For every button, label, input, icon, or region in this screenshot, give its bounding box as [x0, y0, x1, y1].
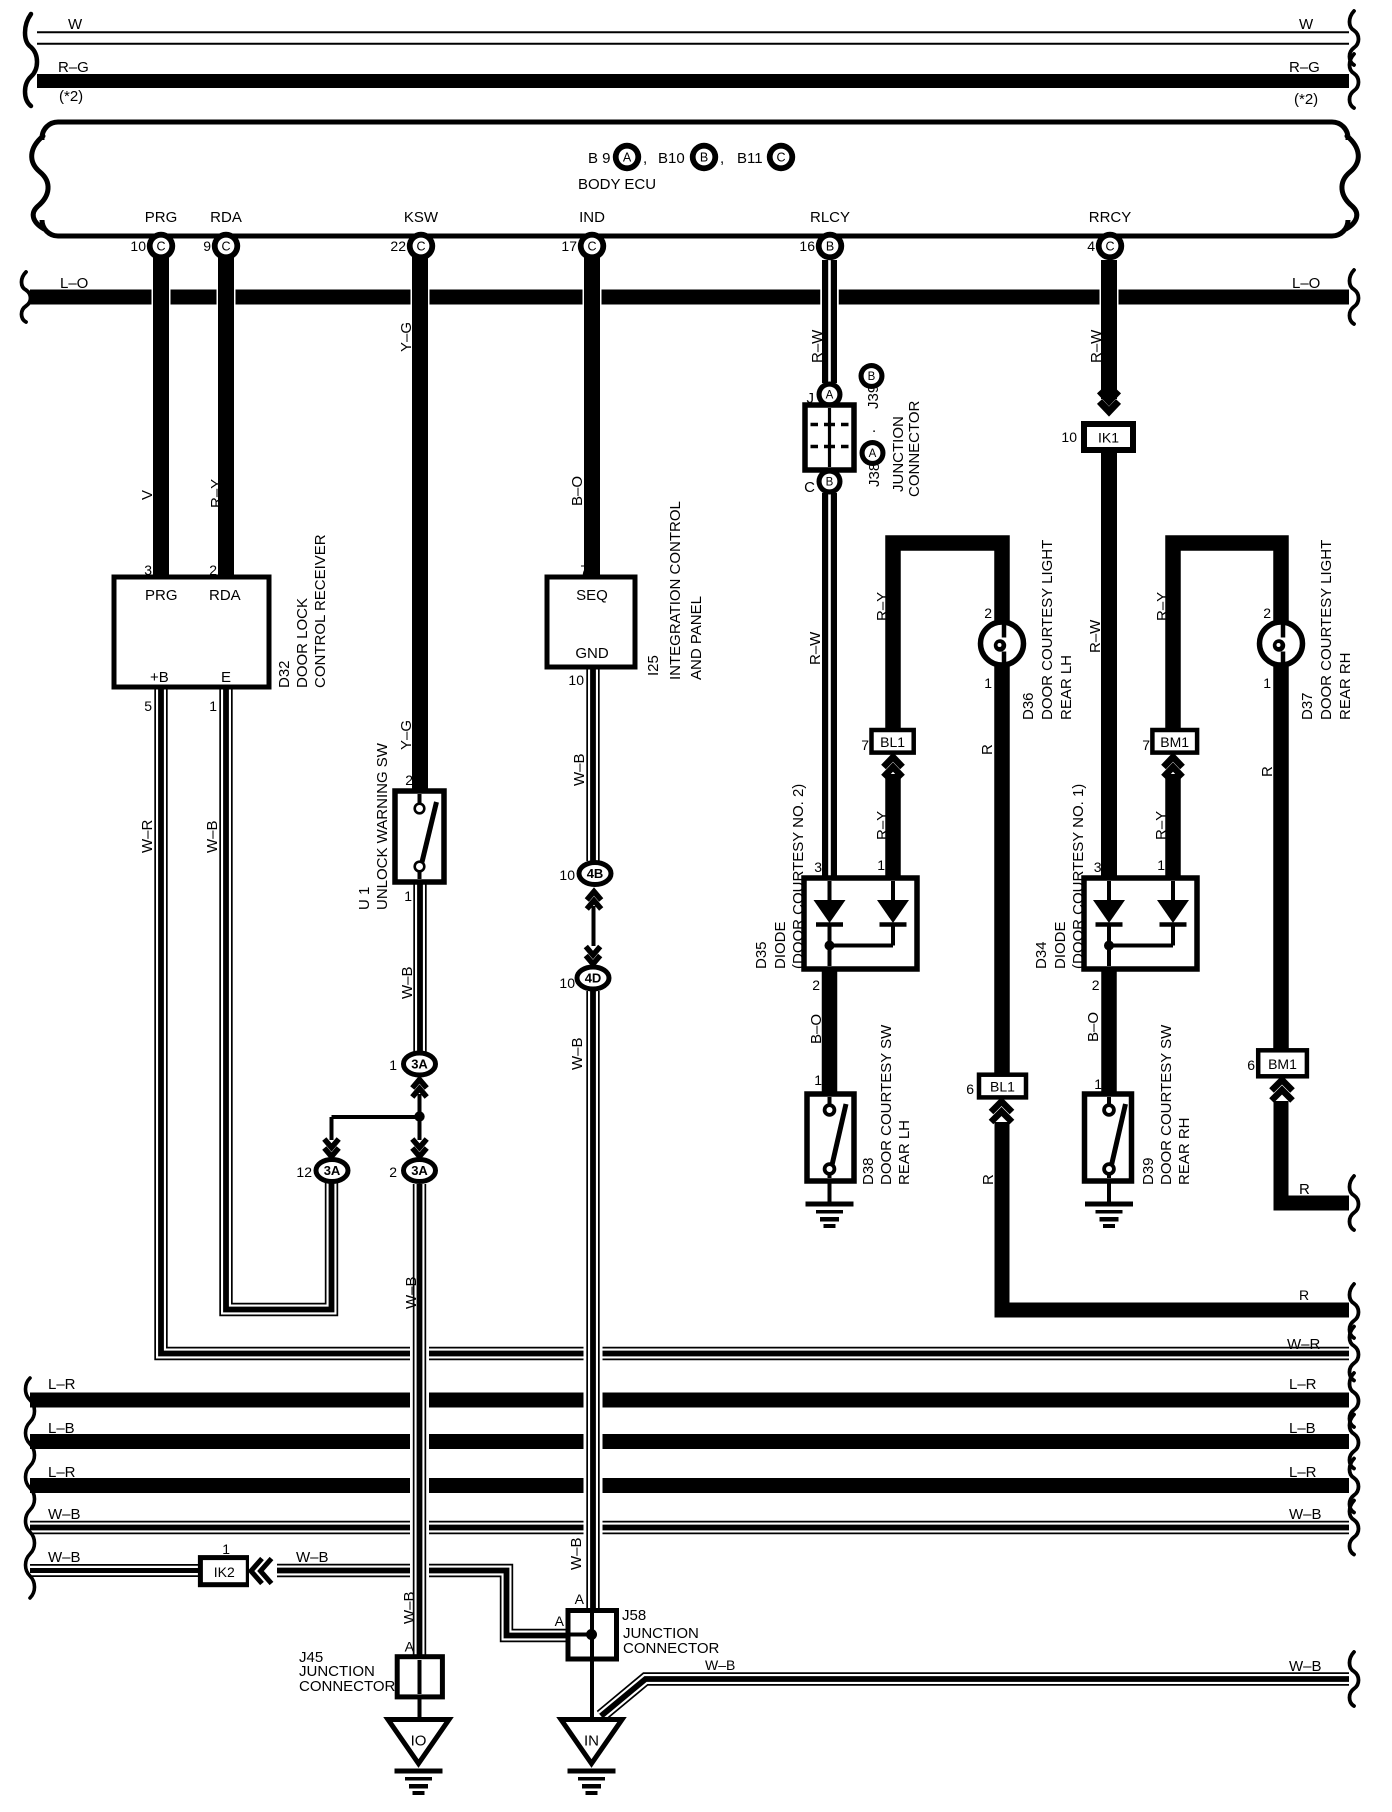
svg-text:2: 2	[209, 562, 217, 578]
svg-text:,: ,	[720, 150, 724, 167]
svg-text:(*2): (*2)	[59, 88, 83, 105]
svg-text:D36: D36	[1020, 692, 1037, 720]
svg-text:W–B: W–B	[204, 820, 221, 853]
svg-text:7: 7	[1142, 737, 1150, 753]
svg-text:(DOOR COURTESY NO. 1): (DOOR COURTESY NO. 1)	[1070, 784, 1087, 969]
svg-text:B: B	[826, 240, 834, 254]
svg-text:C: C	[776, 151, 785, 165]
svg-text:B: B	[826, 477, 834, 489]
svg-text:PRG: PRG	[145, 587, 178, 604]
svg-text:L–R: L–R	[48, 1464, 76, 1481]
svg-text:W–B: W–B	[1289, 1658, 1322, 1675]
svg-text:IN: IN	[584, 1733, 599, 1750]
svg-text:10: 10	[568, 672, 584, 688]
svg-text:PRG: PRG	[145, 209, 178, 226]
svg-text:7: 7	[580, 562, 588, 578]
svg-text:INTEGRATION CONTROL: INTEGRATION CONTROL	[667, 501, 684, 680]
svg-text:1: 1	[389, 1057, 397, 1073]
svg-text:4B: 4B	[587, 866, 604, 881]
svg-text:1: 1	[1094, 1076, 1102, 1092]
svg-text:IND: IND	[579, 209, 605, 226]
svg-text:R–W: R–W	[809, 329, 826, 363]
svg-text:BM1: BM1	[1268, 1056, 1297, 1072]
svg-text:1: 1	[1157, 857, 1165, 873]
svg-text:R–G: R–G	[1289, 59, 1320, 76]
svg-text:B–O: B–O	[569, 476, 586, 506]
svg-text:1: 1	[209, 698, 217, 714]
svg-text:(DOOR COURTESY NO. 2): (DOOR COURTESY NO. 2)	[790, 784, 807, 969]
svg-text:R–Y: R–Y	[208, 479, 225, 508]
svg-text:JUNCTION: JUNCTION	[890, 416, 907, 492]
svg-text:+B: +B	[150, 669, 169, 686]
svg-text:2: 2	[984, 605, 992, 621]
svg-text:BM1: BM1	[1160, 734, 1189, 750]
svg-text:W–B: W–B	[48, 1506, 81, 1523]
svg-text:10: 10	[130, 238, 146, 254]
svg-text:BL1: BL1	[990, 1079, 1015, 1095]
svg-text:L–B: L–B	[48, 1420, 75, 1437]
svg-text:R: R	[979, 744, 996, 755]
svg-text:CONNECTOR: CONNECTOR	[299, 1678, 396, 1695]
svg-text:C: C	[416, 240, 425, 254]
svg-text:C: C	[587, 240, 596, 254]
svg-text:J38: J38	[866, 463, 883, 487]
svg-text:D37: D37	[1299, 692, 1316, 720]
svg-text:2: 2	[812, 977, 820, 993]
svg-text:RRCY: RRCY	[1089, 209, 1132, 226]
svg-text:W: W	[68, 16, 83, 33]
svg-text:W–B: W–B	[705, 1657, 735, 1673]
svg-text:A: A	[869, 448, 877, 460]
svg-text:2: 2	[1092, 977, 1100, 993]
svg-text:R–W: R–W	[807, 631, 824, 665]
svg-text:R: R	[1299, 1287, 1309, 1303]
svg-text:DOOR COURTESY LIGHT: DOOR COURTESY LIGHT	[1039, 540, 1056, 720]
svg-text:DIODE: DIODE	[1052, 921, 1069, 969]
svg-text:UNLOCK WARNING SW: UNLOCK WARNING SW	[374, 742, 391, 910]
svg-text:W–B: W–B	[296, 1549, 329, 1566]
svg-text:CONNECTOR: CONNECTOR	[906, 400, 923, 497]
svg-text:B–O: B–O	[1085, 1012, 1102, 1042]
svg-text:4D: 4D	[585, 971, 602, 986]
svg-text:D34: D34	[1033, 941, 1050, 969]
svg-text:C: C	[804, 479, 815, 496]
svg-text:2: 2	[389, 1164, 397, 1180]
svg-text:3: 3	[144, 562, 152, 578]
svg-text:DOOR COURTESY SW: DOOR COURTESY SW	[878, 1024, 895, 1185]
svg-text:.: .	[872, 419, 876, 436]
svg-text:1: 1	[222, 1541, 230, 1557]
svg-text:RDA: RDA	[209, 587, 241, 604]
svg-text:IK2: IK2	[214, 1564, 235, 1580]
svg-text:3: 3	[814, 859, 822, 875]
svg-text:BODY ECU: BODY ECU	[578, 176, 656, 193]
svg-text:6: 6	[966, 1081, 974, 1097]
svg-text:1: 1	[404, 888, 412, 904]
svg-text:B–O: B–O	[808, 1014, 825, 1044]
svg-text:22: 22	[390, 238, 406, 254]
svg-text:16: 16	[799, 238, 815, 254]
svg-text:R–Y: R–Y	[874, 592, 891, 621]
svg-text:Y–G: Y–G	[398, 720, 415, 750]
svg-text:IO: IO	[411, 1733, 427, 1750]
svg-text:GND: GND	[575, 645, 609, 662]
svg-text:3A: 3A	[411, 1163, 428, 1178]
svg-text:I25: I25	[645, 655, 662, 676]
svg-text:6: 6	[1247, 1057, 1255, 1073]
svg-text:R–Y: R–Y	[874, 811, 891, 840]
svg-text:J39: J39	[865, 385, 882, 409]
svg-text:D38: D38	[860, 1157, 877, 1185]
svg-text:1: 1	[1263, 675, 1271, 691]
svg-text:B: B	[700, 151, 708, 165]
svg-text:(*2): (*2)	[1294, 91, 1318, 108]
svg-text:B 9: B 9	[588, 150, 611, 167]
svg-text:7: 7	[861, 737, 869, 753]
svg-text:W–B: W–B	[403, 1276, 420, 1309]
svg-text:L–O: L–O	[60, 275, 88, 292]
svg-text:REAR RH: REAR RH	[1176, 1117, 1193, 1185]
svg-text:12: 12	[296, 1164, 312, 1180]
svg-text:SEQ: SEQ	[576, 587, 608, 604]
svg-text:RLCY: RLCY	[810, 209, 850, 226]
svg-text:R–Y: R–Y	[1154, 592, 1171, 621]
svg-text:RDA: RDA	[210, 209, 242, 226]
svg-text:3A: 3A	[324, 1163, 341, 1178]
svg-text:R–W: R–W	[1087, 619, 1104, 653]
svg-text:R–G: R–G	[58, 59, 89, 76]
svg-text:B10: B10	[658, 150, 685, 167]
svg-text:5: 5	[144, 698, 152, 714]
svg-text:A: A	[555, 1613, 565, 1629]
svg-text:B: B	[868, 371, 876, 383]
svg-text:10: 10	[559, 867, 575, 883]
svg-text:D39: D39	[1140, 1157, 1157, 1185]
svg-text:REAR LH: REAR LH	[1058, 655, 1075, 720]
svg-text:3A: 3A	[411, 1057, 428, 1072]
svg-text:R: R	[1259, 766, 1276, 777]
svg-text:CONNECTOR: CONNECTOR	[623, 1640, 720, 1657]
svg-text:A: A	[623, 151, 632, 165]
svg-text:C: C	[221, 240, 230, 254]
svg-text:17: 17	[561, 238, 577, 254]
svg-text:L–B: L–B	[1289, 1420, 1316, 1437]
svg-text:U 1: U 1	[356, 887, 373, 910]
svg-text:L–R: L–R	[1289, 1376, 1317, 1393]
svg-text:W–B: W–B	[569, 1037, 586, 1070]
svg-text:W–B: W–B	[401, 1591, 418, 1624]
svg-text:B11: B11	[737, 150, 763, 167]
svg-text:DOOR COURTESY SW: DOOR COURTESY SW	[1158, 1024, 1175, 1185]
svg-text:W–B: W–B	[1289, 1506, 1322, 1523]
svg-text:DIODE: DIODE	[772, 921, 789, 969]
svg-text:V: V	[139, 490, 156, 500]
svg-text:Y–G: Y–G	[398, 322, 415, 352]
svg-text:R–Y: R–Y	[1153, 811, 1170, 840]
svg-text:REAR RH: REAR RH	[1337, 652, 1354, 720]
svg-text:L–R: L–R	[48, 1376, 76, 1393]
svg-text:J58: J58	[622, 1607, 646, 1624]
svg-text:9: 9	[203, 238, 211, 254]
svg-text:AND PANEL: AND PANEL	[688, 596, 705, 680]
svg-text:IK1: IK1	[1098, 430, 1119, 446]
svg-text:L–O: L–O	[1292, 275, 1320, 292]
svg-text:E: E	[221, 669, 231, 686]
svg-text:A: A	[826, 390, 834, 402]
svg-text:REAR LH: REAR LH	[896, 1120, 913, 1185]
svg-text:A: A	[575, 1591, 585, 1607]
svg-text:3: 3	[1094, 859, 1102, 875]
svg-text:1: 1	[814, 1072, 822, 1088]
svg-text:W–B: W–B	[399, 966, 416, 999]
svg-text:10: 10	[559, 975, 575, 991]
svg-text:2: 2	[1263, 605, 1271, 621]
svg-text:R: R	[1299, 1181, 1310, 1198]
svg-text:10: 10	[1061, 429, 1077, 445]
svg-text:2: 2	[405, 772, 413, 788]
svg-text:C: C	[156, 240, 165, 254]
svg-text:R: R	[980, 1174, 997, 1185]
svg-text:D32: D32	[276, 660, 293, 688]
svg-text:W–R: W–R	[139, 820, 156, 854]
svg-text:W–B: W–B	[48, 1549, 81, 1566]
svg-text:C: C	[1105, 240, 1114, 254]
svg-text:,: ,	[643, 150, 647, 167]
svg-text:W–B: W–B	[571, 753, 588, 786]
svg-text:DOOR COURTESY LIGHT: DOOR COURTESY LIGHT	[1318, 540, 1335, 720]
svg-text:A: A	[405, 1639, 415, 1655]
svg-text:BL1: BL1	[880, 734, 905, 750]
svg-text:1: 1	[877, 857, 885, 873]
svg-text:W–R: W–R	[1287, 1336, 1321, 1353]
svg-text:DOOR LOCK: DOOR LOCK	[294, 598, 311, 688]
svg-text:1: 1	[984, 675, 992, 691]
svg-text:R–W: R–W	[1088, 329, 1105, 363]
svg-text:D35: D35	[753, 941, 770, 969]
svg-text:CONTROL RECEIVER: CONTROL RECEIVER	[312, 534, 329, 688]
svg-text:L–R: L–R	[1289, 1464, 1317, 1481]
svg-text:W–B: W–B	[568, 1537, 585, 1570]
svg-text:4: 4	[1087, 238, 1095, 254]
svg-text:KSW: KSW	[404, 209, 439, 226]
svg-text:W: W	[1299, 16, 1314, 33]
